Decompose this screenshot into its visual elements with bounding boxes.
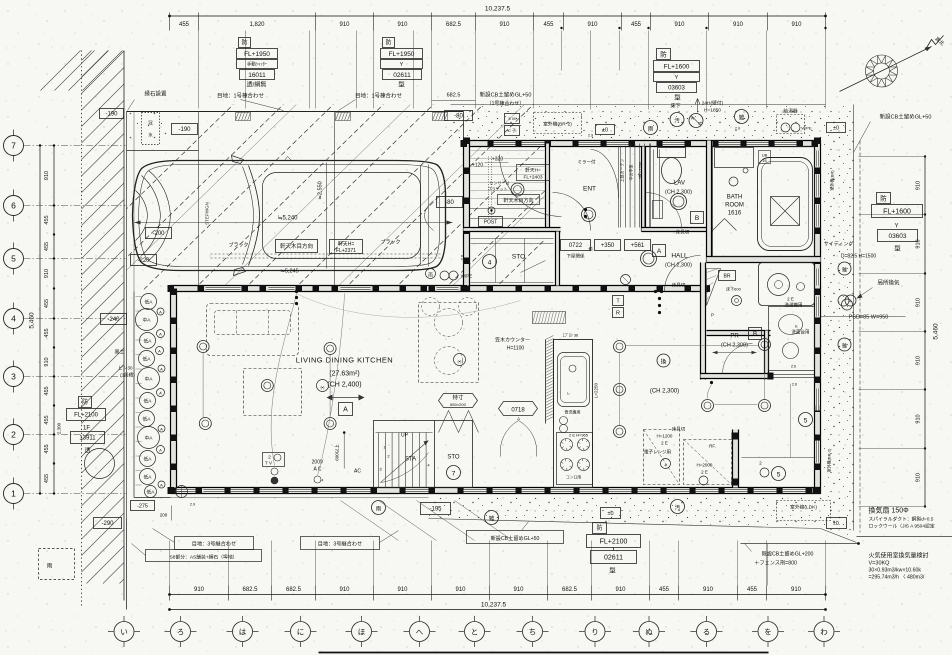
window east of PR south wall	[771, 374, 815, 376]
svg-text:(CH 2,400): (CH 2,400)	[327, 382, 361, 389]
site slope hatch band left	[82, 51, 125, 584]
svg-text:雑: 雑	[842, 267, 847, 274]
carport internal vertical lines	[198, 112, 200, 286]
window glyphs on south wall	[177, 488, 806, 492]
svg-text:目地：1号棟合わせ: 目地：1号棟合わせ	[217, 92, 265, 100]
level box -190 (west)	[100, 109, 124, 119]
svg-text:D=82.5 H=1500: D=82.5 H=1500	[841, 254, 877, 260]
washer circle	[732, 296, 742, 306]
svg-text:床下: 床下	[670, 103, 680, 110]
level box -220	[131, 255, 157, 266]
svg-text:-240: -240	[107, 317, 120, 323]
top extension lines down to site	[199, 31, 826, 110]
svg-text:2.6: 2.6	[791, 365, 796, 369]
bottom dimension line	[170, 594, 826, 596]
svg-text:A: A	[160, 482, 163, 487]
PR width arrows	[713, 352, 757, 354]
svg-text:≒5,245: ≒5,245	[280, 269, 298, 275]
svg-text:682.5: 682.5	[286, 587, 302, 593]
closet bifold doors below 特寸	[439, 411, 479, 433]
svg-text:A: A	[160, 366, 163, 371]
svg-text:2枚=1200: 2枚=1200	[637, 161, 643, 179]
svg-text:雑: 雑	[739, 114, 745, 122]
wiring curves	[271, 294, 296, 466]
svg-text:7: 7	[452, 471, 456, 478]
bottom overall line	[170, 609, 826, 611]
hall door arc to LDK	[665, 256, 701, 292]
svg-text:(CH 2,300): (CH 2,300)	[665, 263, 692, 269]
svg-text:LAV: LAV	[674, 181, 685, 187]
svg-text:7: 7	[11, 141, 16, 151]
svg-text:上部カーテン: 上部カーテン	[619, 159, 625, 183]
svg-text:床見切: 床見切	[672, 282, 686, 289]
svg-text:A: A	[159, 331, 162, 336]
bottom extension risers	[127, 519, 826, 610]
svg-text:2 E: 2 E	[661, 441, 668, 446]
kitchen tile wall hatch	[546, 336, 554, 421]
svg-text:透/網無: 透/網無	[247, 81, 267, 89]
svg-text:-220: -220	[137, 258, 150, 264]
svg-text:給湯器: 給湯器	[783, 108, 798, 115]
hatch band right edge line	[123, 51, 125, 601]
svg-text:室外線(LDK): 室外線(LDK)	[790, 504, 817, 511]
svg-text:5: 5	[777, 472, 781, 479]
svg-text:A: A	[158, 348, 161, 353]
STO upper room east wall	[556, 232, 560, 286]
outdoor unit dashed box 室外機	[534, 113, 582, 134]
svg-text:は: は	[239, 627, 247, 636]
sheet bottom border line	[319, 652, 769, 654]
svg-text:1616: 1616	[728, 211, 742, 217]
pavement joint diagonals	[341, 501, 513, 541]
refrigerator dashed box RF	[684, 440, 732, 485]
svg-text:洗面台用: 洗面台用	[792, 329, 810, 336]
svg-text:4: 4	[322, 479, 324, 483]
svg-text:910: 910	[791, 22, 802, 28]
STA arrow diagonal	[381, 441, 429, 483]
shutter label #1 (防 FL+1950 16011)	[239, 38, 251, 48]
svg-text:手動ｼｬｯﾀｰ: 手動ｼｬｯﾀｰ	[247, 61, 268, 68]
svg-text:10,237.5: 10,237.5	[481, 602, 507, 609]
svg-text:ミラー付: ミラー付	[578, 159, 596, 166]
600以上 vertical note	[343, 433, 345, 469]
svg-text:2 E: 2 E	[787, 297, 794, 302]
car length dim arrow	[135, 222, 453, 224]
svg-text:中A: 中A	[143, 317, 152, 324]
svg-text:W/PE: W/PE	[801, 126, 812, 131]
left grid circles 7..1	[4, 130, 126, 510]
svg-text:に: に	[297, 627, 305, 636]
porch entry arc	[500, 155, 562, 217]
svg-text:02611: 02611	[393, 72, 411, 79]
svg-text:682.5: 682.5	[562, 587, 578, 593]
svg-text:ピン30: ピン30	[118, 366, 133, 371]
svg-text:E: E	[698, 122, 701, 126]
svg-text:-290: -290	[101, 521, 114, 527]
planting strip edge	[133, 292, 135, 498]
svg-text:-200: -200	[152, 231, 165, 237]
EM meter boxes top	[505, 114, 520, 124]
svg-text:1F: 1F	[83, 426, 90, 432]
svg-text:2.6: 2.6	[792, 383, 797, 387]
svg-text:を: を	[764, 627, 772, 636]
svg-text:A: A	[343, 407, 348, 414]
svg-text:雑: 雑	[489, 515, 495, 523]
682.5 sub-dimension top right	[432, 100, 476, 102]
svg-text:黒土: 黒土	[114, 349, 124, 356]
car width dim arrow	[326, 163, 328, 269]
svg-text:ブラック: ブラック	[380, 239, 400, 246]
svg-text:2,300: 2,300	[57, 422, 62, 434]
svg-text:局所換気: 局所換気	[877, 279, 900, 287]
svg-text:5,460: 5,460	[933, 323, 940, 340]
light wiring lines	[202, 353, 204, 418]
level box -290	[94, 518, 122, 529]
svg-text:＋フェンス刑=800: ＋フェンス刑=800	[754, 559, 797, 567]
window glyphs on east wall	[815, 151, 819, 463]
svg-text:3: 3	[11, 372, 16, 382]
svg-text:ほ: ほ	[358, 627, 366, 636]
svg-text:H=1200: H=1200	[657, 434, 673, 439]
bottom dimension ticks	[170, 586, 826, 601]
wall south of porch/ENT	[464, 228, 561, 232]
svg-text:16011: 16011	[248, 72, 266, 79]
svg-text:雑: 雑	[842, 343, 847, 350]
site property line (dotted, left)	[81, 51, 83, 606]
svg-text:910: 910	[733, 22, 744, 28]
bath room walls inner	[713, 147, 815, 257]
+-0 box top right	[827, 123, 846, 133]
svg-text:る: る	[703, 627, 711, 636]
STA treads	[376, 433, 433, 488]
svg-text:(CH 2,300): (CH 2,300)	[650, 389, 679, 395]
svg-text:室外機(BR): 室外機(BR)	[829, 170, 835, 191]
PR/vanity divider	[765, 331, 769, 380]
ENT door arc upper	[591, 150, 619, 199]
雑 circle bottom	[485, 511, 499, 525]
svg-text:±0: ±0	[602, 128, 608, 134]
svg-text:BATH: BATH	[727, 195, 743, 201]
svg-text:低A: 低A	[145, 299, 154, 306]
svg-text:455: 455	[659, 587, 670, 593]
svg-text:低A: 低A	[147, 489, 156, 496]
svg-text:B: B	[753, 332, 757, 338]
joint label bottom #2	[301, 537, 380, 550]
svg-text:い: い	[120, 627, 128, 636]
svg-text:ち: ち	[529, 627, 537, 636]
svg-text:910: 910	[916, 181, 922, 190]
bath window X square	[771, 197, 800, 226]
svg-text:(27.63m²): (27.63m²)	[329, 371, 359, 378]
svg-text:コンロ用: コンロ用	[566, 475, 581, 480]
sofa dashed	[207, 304, 299, 356]
svg-text:目地：3号継合わせ: 目地：3号継合わせ	[192, 540, 236, 548]
svg-text:縁石設置: 縁石設置	[144, 90, 167, 98]
gas stove burners	[557, 433, 593, 485]
small fixture circle	[621, 275, 631, 285]
svg-text:910: 910	[499, 22, 510, 28]
svg-text:スパイラルダクト：鋼製d=0.5: スパイラルダクト：鋼製d=0.5	[869, 516, 934, 523]
west exterior wall (LDK)	[171, 286, 177, 494]
svg-text:+120: +120	[472, 163, 483, 169]
svg-text:910: 910	[397, 22, 408, 28]
svg-text:2 E: 2 E	[701, 470, 708, 475]
east exterior wall	[815, 141, 821, 494]
svg-text:455: 455	[747, 587, 758, 593]
bath tub	[758, 158, 813, 251]
svg-text:±0: ±0	[607, 511, 613, 517]
expansion joint hatch marks on slab edge	[236, 113, 448, 121]
svg-text:455: 455	[44, 328, 50, 337]
svg-text:682.5: 682.5	[447, 93, 461, 99]
vanity counter	[759, 263, 815, 306]
svg-text:910: 910	[339, 587, 350, 593]
svg-text:910: 910	[339, 22, 350, 28]
svg-text:0718: 0718	[511, 408, 525, 414]
svg-text:H=1100: H=1100	[507, 346, 525, 352]
svg-text:雨: 雨	[47, 563, 53, 570]
left dimension lines	[39, 146, 41, 494]
rain dashed box	[39, 549, 75, 580]
雑 circles right	[838, 262, 851, 275]
PR north wall	[707, 331, 771, 336]
svg-text:V=30KQ: V=30KQ	[869, 561, 891, 567]
svg-text:と: と	[471, 627, 479, 636]
+-0 box bottom right	[827, 518, 847, 529]
svg-text:透: 透	[84, 447, 90, 455]
POST box	[479, 217, 503, 227]
ENT downlight	[582, 208, 596, 222]
汚 circle bottom	[671, 500, 685, 514]
svg-text:-195: -195	[429, 507, 442, 513]
特寸 hexagon label	[439, 394, 478, 408]
svg-text:910: 910	[44, 269, 50, 278]
porch door track dotted	[488, 157, 490, 219]
svg-text:型: 型	[609, 566, 616, 575]
svg-text:T V: T V	[265, 461, 272, 466]
svg-text:910: 910	[916, 356, 922, 365]
south exterior wall	[171, 488, 821, 494]
A box with arrows (LDK)	[327, 395, 333, 401]
svg-text:床見切: 床見切	[672, 426, 686, 433]
svg-text:4: 4	[11, 314, 16, 324]
level box -80 (carport east)	[437, 197, 463, 208]
svg-text:ロックウール（JIS A 9504認定: ロックウール（JIS A 9504認定	[869, 523, 935, 530]
svg-text:特寸: 特寸	[452, 394, 464, 402]
svg-text:+561: +561	[631, 243, 645, 249]
svg-text:床下600: 床下600	[726, 286, 741, 292]
svg-text:910: 910	[916, 239, 922, 248]
site west boundary vertical	[126, 112, 128, 610]
svg-text:（1号棟合わせ）: （1号棟合わせ）	[487, 100, 525, 107]
dining table dashed	[419, 303, 479, 383]
svg-text:13911: 13911	[79, 436, 96, 442]
south apron top line	[171, 497, 429, 499]
misc circle	[735, 110, 749, 124]
svg-text:16: 16	[762, 158, 767, 163]
svg-text:中A: 中A	[145, 435, 154, 442]
svg-text:C 子: C 子	[508, 127, 516, 133]
UB label	[759, 151, 771, 164]
eave soffit dashed lines	[211, 253, 441, 255]
svg-text:S8部分：AS舗装+縁石（埠地）: S8部分：AS舗装+縁石（埠地）	[170, 554, 238, 561]
svg-text:-190: -190	[105, 112, 118, 118]
svg-text:455: 455	[44, 444, 50, 453]
svg-text:室外機(BR-2): 室外機(BR-2)	[826, 448, 832, 472]
S8 pavement note	[146, 550, 262, 562]
svg-text:10,237.5: 10,237.5	[485, 6, 511, 13]
svg-text:24H(壁付): 24H(壁付)	[702, 100, 724, 107]
svg-text:910: 910	[455, 587, 466, 593]
soil circle	[670, 113, 684, 127]
svg-text:軒天木目方向: 軒天木目方向	[280, 242, 313, 250]
svg-text:(•): (•)	[457, 359, 462, 364]
svg-text:03603: 03603	[668, 86, 685, 92]
kitchen counter	[554, 340, 593, 488]
svg-text:換気扇 150Φ: 換気扇 150Φ	[869, 506, 910, 515]
svg-text:A: A	[159, 390, 162, 395]
upper louver strip	[619, 144, 651, 228]
hall level boxes 0722 +350 +561	[561, 240, 591, 251]
PS hatch triangle	[707, 269, 721, 306]
svg-text:4: 4	[488, 260, 492, 267]
200 offset note	[171, 506, 173, 521]
svg-text:中の学型: 中の学型	[628, 165, 634, 181]
svg-text:E: E	[795, 324, 798, 329]
svg-text:910: 910	[194, 587, 205, 593]
svg-text:5,460: 5,460	[29, 312, 36, 329]
svg-text:A: A	[159, 447, 162, 452]
svg-text:ENT: ENT	[583, 186, 596, 193]
top dimension ticks	[170, 13, 826, 31]
carport slab top edge	[127, 111, 464, 113]
svg-text:ROOM: ROOM	[725, 203, 744, 209]
microwave dashed box 電子レンジ用	[644, 430, 680, 485]
bottom grid circles (hiragana axis marks)	[108, 616, 840, 647]
svg-text:(•): (•)	[320, 385, 325, 390]
carport slab secondary edge	[127, 150, 199, 152]
svg-text:910: 910	[44, 171, 50, 180]
svg-text:ｴﾌﾟﾛﾝ 36: ｴﾌﾟﾛﾝ 36	[563, 332, 579, 338]
svg-text:STO: STO	[447, 455, 460, 461]
window label 防 FL+2100 1F 13911	[79, 397, 92, 408]
svg-text:682.5: 682.5	[446, 22, 462, 28]
svg-text:FL+2100: FL+2100	[74, 413, 99, 419]
svg-text:600以上: 600以上	[334, 444, 340, 461]
svg-text:STO: STO	[512, 254, 525, 261]
svg-text:ろ: ろ	[177, 627, 185, 636]
svg-text:低A: 低A	[144, 338, 153, 345]
level box -275	[131, 501, 155, 511]
svg-text:455: 455	[44, 386, 50, 395]
svg-text:STEPWGN: STEPWGN	[205, 202, 210, 225]
svg-text:2.9: 2.9	[588, 134, 593, 138]
compass north symbol	[866, 55, 898, 87]
svg-text:FL+1600: FL+1600	[883, 209, 911, 216]
closet doors below 0718	[500, 421, 518, 457]
svg-text:≒2,550: ≒2,550	[318, 181, 324, 199]
svg-text:FL+1950: FL+1950	[389, 51, 415, 58]
svg-text:笠木カウンター: 笠木カウンター	[495, 337, 530, 344]
svg-text:火気使用室換気量検討: 火気使用室換気量検討	[869, 552, 929, 560]
svg-text:455: 455	[44, 299, 50, 308]
carport west inner line	[133, 112, 135, 292]
rain circle	[644, 121, 658, 135]
svg-text:A: A	[657, 248, 662, 255]
svg-text:2.9: 2.9	[190, 503, 195, 507]
svg-text:2: 2	[11, 430, 16, 440]
svg-text:RF.: RF.	[709, 444, 716, 449]
svg-text:傾: 傾	[589, 246, 593, 252]
svg-text:レ: レ	[567, 392, 571, 396]
PSD fan symbol	[838, 295, 849, 306]
svg-text:0722: 0722	[569, 243, 583, 249]
svg-text:電子レンジ用: 電子レンジ用	[644, 449, 671, 456]
toilet bowl	[662, 158, 682, 184]
svg-text:低A: 低A	[144, 456, 153, 463]
svg-text:軒天木目方向: 軒天木目方向	[503, 197, 533, 204]
svg-text:FL+2403: FL+2403	[523, 175, 542, 181]
svg-text:455: 455	[44, 474, 50, 483]
level box -195	[421, 503, 451, 515]
svg-text:防: 防	[880, 193, 887, 202]
carport eave solid diagonals	[96, 96, 648, 301]
svg-text:新設CB土留めGL+50: 新設CB土留めGL+50	[880, 113, 932, 121]
svg-text:910: 910	[916, 414, 922, 423]
室外線LDK dashed box	[777, 501, 831, 521]
TV outlet cluster	[263, 453, 285, 467]
PR south wall	[701, 374, 771, 379]
svg-text:雨: 雨	[648, 126, 654, 133]
svg-text:低A: 低A	[143, 416, 152, 423]
svg-text:910: 910	[791, 587, 802, 593]
level box -80 (north)	[445, 111, 473, 121]
svg-text:目地：3号継合わせ: 目地：3号継合わせ	[318, 540, 362, 548]
level box -240	[101, 314, 127, 325]
svg-text:-275: -275	[137, 504, 148, 510]
ceiling lights (double circles)	[197, 341, 209, 353]
window label 防FL+1600 right	[877, 193, 891, 204]
svg-text:汚: 汚	[675, 504, 681, 512]
svg-text:わ: わ	[820, 627, 828, 636]
svg-text:=295.74m3/h 〈 480m3/: =295.74m3/h 〈 480m3/	[869, 574, 925, 581]
joint label bottom #1	[175, 537, 254, 550]
svg-text:2 E H=965: 2 E H=965	[569, 433, 589, 438]
svg-text:910: 910	[615, 587, 626, 593]
svg-text:Y: Y	[400, 62, 404, 68]
svg-text:防: 防	[82, 398, 88, 406]
svg-text:汚: 汚	[674, 117, 680, 125]
svg-text:E M: E M	[508, 116, 515, 121]
porch soffit label box	[517, 165, 550, 181]
svg-text:B: B	[695, 215, 699, 222]
svg-text:03603: 03603	[888, 233, 906, 240]
svg-text:洗濯機用: 洗濯機用	[785, 302, 803, 309]
svg-text:30×0.93m3/kw×10.60k: 30×0.93m3/kw×10.60k	[869, 568, 922, 574]
svg-text:型: 型	[894, 244, 901, 253]
rain circle bottom	[372, 501, 386, 515]
bottom stipple band (south of building)	[429, 498, 823, 528]
svg-text:FL+1950: FL+1950	[244, 51, 270, 58]
svg-text:型: 型	[398, 80, 405, 89]
B box hall	[691, 212, 704, 224]
svg-text:POST: POST	[484, 219, 498, 225]
porch steps	[470, 208, 546, 210]
svg-text:200: 200	[160, 513, 168, 518]
W/PE symbols at carport SE	[426, 269, 436, 279]
svg-text:-190: -190	[178, 127, 191, 133]
STO upper interior lines	[471, 239, 554, 283]
